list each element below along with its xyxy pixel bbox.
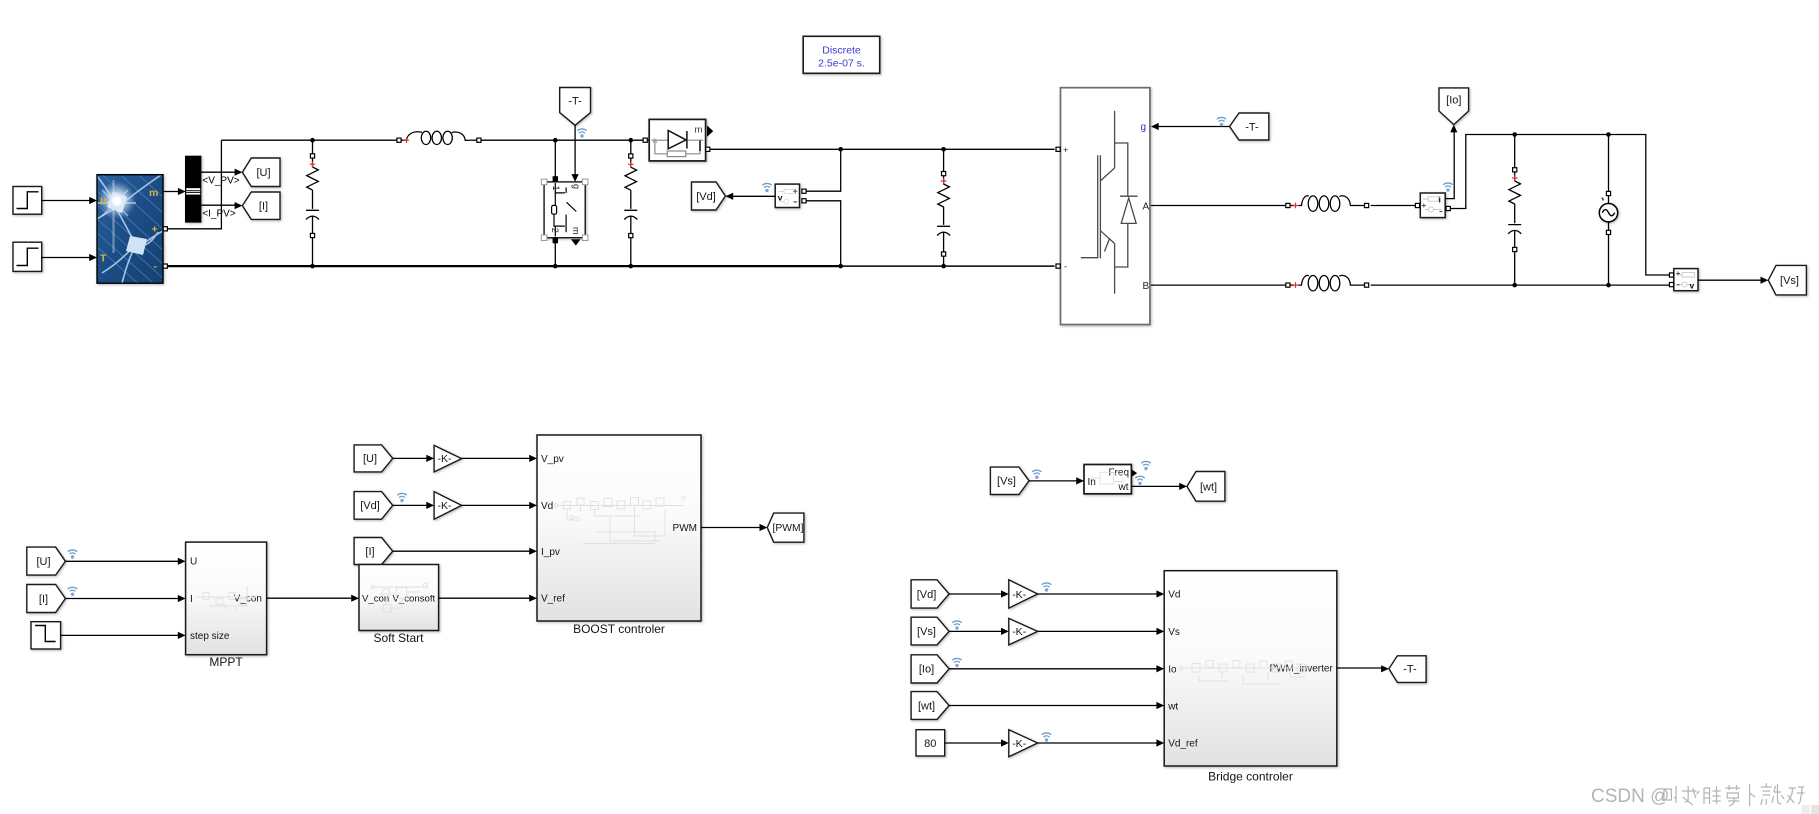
- svg-text:80: 80: [924, 738, 936, 750]
- svg-text:Discrete: Discrete: [822, 45, 861, 57]
- svg-text:-K-: -K-: [1012, 738, 1026, 750]
- svg-text:[Vd]: [Vd]: [917, 589, 937, 601]
- svg-text:[U]: [U]: [36, 556, 50, 568]
- svg-text:g: g: [1141, 122, 1147, 133]
- svg-text:-T-: -T-: [1403, 664, 1417, 676]
- svg-text:[wt]: [wt]: [918, 700, 935, 712]
- svg-text:V_consoft: V_consoft: [393, 594, 436, 605]
- svg-text:CSDN @: CSDN @: [1591, 786, 1669, 807]
- svg-text:V_con: V_con: [234, 594, 262, 605]
- svg-text:-K-: -K-: [438, 500, 453, 512]
- svg-text:i: i: [1439, 195, 1441, 205]
- svg-text:In: In: [1088, 477, 1096, 488]
- svg-text:[Io]: [Io]: [919, 664, 934, 676]
- svg-text:[I]: [I]: [259, 201, 268, 213]
- svg-text:Freq: Freq: [1108, 468, 1129, 479]
- svg-text:Vd: Vd: [541, 501, 553, 512]
- svg-text:V_ref: V_ref: [541, 594, 565, 605]
- svg-text:-: -: [1064, 261, 1067, 271]
- svg-text:g: g: [571, 184, 581, 189]
- svg-text:I_pv: I_pv: [541, 547, 560, 558]
- svg-text:-K-: -K-: [1012, 626, 1026, 638]
- svg-text:Vd_ref: Vd_ref: [1168, 739, 1198, 750]
- svg-text:[I]: [I]: [365, 546, 374, 558]
- svg-text:m: m: [571, 227, 581, 235]
- svg-text:[Vd]: [Vd]: [696, 191, 716, 203]
- svg-text:-T-: -T-: [1245, 121, 1259, 133]
- svg-text:v: v: [1690, 281, 1695, 291]
- svg-text:wt: wt: [1118, 482, 1129, 493]
- svg-text:-T-: -T-: [568, 96, 582, 108]
- svg-text:PWM: PWM: [673, 523, 697, 534]
- svg-text:U: U: [190, 556, 197, 567]
- svg-text:+: +: [1063, 145, 1068, 155]
- svg-text:B: B: [1143, 281, 1150, 292]
- svg-text:[Vd]: [Vd]: [360, 500, 380, 512]
- svg-text:Soft Start: Soft Start: [373, 631, 424, 645]
- svg-text:step size: step size: [190, 631, 230, 642]
- svg-text:Io: Io: [1168, 664, 1177, 675]
- svg-text:[Vs]: [Vs]: [917, 626, 936, 638]
- svg-text:-K-: -K-: [1012, 589, 1026, 601]
- svg-text:<I_PV>: <I_PV>: [202, 209, 236, 220]
- svg-text:A: A: [1143, 201, 1150, 212]
- svg-text:BOOST controler: BOOST controler: [573, 622, 665, 636]
- svg-text:PWM_inverter: PWM_inverter: [1269, 664, 1333, 675]
- svg-text:V_pv: V_pv: [541, 454, 564, 465]
- svg-text:-K-: -K-: [438, 453, 453, 465]
- svg-text:Vs: Vs: [1168, 627, 1180, 638]
- svg-text:[Vs]: [Vs]: [997, 476, 1016, 488]
- svg-text:[Io]: [Io]: [1446, 95, 1461, 107]
- svg-text:-: -: [154, 261, 158, 273]
- svg-text:[U]: [U]: [256, 167, 270, 179]
- svg-text:+: +: [152, 224, 158, 236]
- svg-text:a: a: [653, 135, 658, 145]
- svg-text:2.5e-07 s.: 2.5e-07 s.: [818, 58, 865, 70]
- svg-text:I: I: [190, 594, 193, 605]
- svg-text:[wt]: [wt]: [1200, 481, 1217, 493]
- svg-text:V_con: V_con: [362, 594, 389, 605]
- svg-text:wt: wt: [1167, 701, 1178, 712]
- svg-text:m: m: [149, 187, 158, 199]
- svg-text:<V_PV>: <V_PV>: [202, 176, 239, 187]
- svg-text:T: T: [100, 253, 107, 265]
- svg-text:[I]: [I]: [39, 593, 48, 605]
- svg-text:[PWM]: [PWM]: [773, 523, 804, 534]
- svg-text:Ir: Ir: [100, 196, 107, 208]
- svg-text:[U]: [U]: [363, 453, 377, 465]
- svg-text:1: 1: [551, 185, 561, 190]
- svg-text:Vd: Vd: [1168, 590, 1180, 601]
- svg-text:MPPT: MPPT: [209, 655, 243, 669]
- svg-text:v: v: [778, 192, 783, 202]
- svg-text:Bridge controler: Bridge controler: [1208, 770, 1293, 784]
- svg-text:2: 2: [550, 228, 560, 233]
- svg-text:[Vs]: [Vs]: [1780, 275, 1799, 287]
- svg-text:m: m: [695, 125, 703, 136]
